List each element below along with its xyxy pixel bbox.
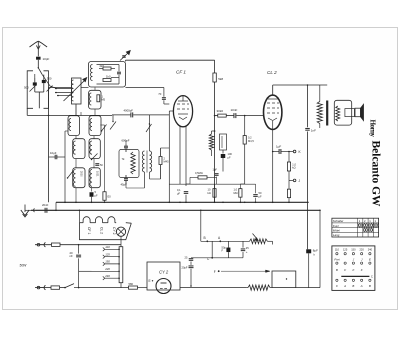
svg-text:220: 220	[359, 248, 364, 252]
capacitor 50pF stack	[95, 164, 103, 167]
tube CY2	[156, 279, 171, 294]
voltage table row B	[336, 268, 363, 272]
svg-text:580: 580	[129, 282, 134, 286]
wire C line	[207, 241, 243, 261]
resistor 1k0	[103, 75, 111, 82]
svg-text:4000pF: 4000pF	[124, 108, 134, 112]
wire CF1 cathodes	[180, 126, 186, 187]
svg-text:Kurz: Kurz	[333, 224, 339, 228]
tube CL2 electrodes	[267, 99, 279, 121]
svg-text:B: B	[336, 268, 338, 272]
svg-text:F: F	[353, 268, 355, 272]
svg-text:F: F	[361, 268, 363, 272]
bandfilter coil	[91, 65, 93, 81]
svg-text:μF: μF	[95, 193, 98, 197]
switch table hatch	[358, 219, 379, 232]
speaker secondary	[336, 106, 340, 121]
voltage table row Frei	[334, 258, 371, 262]
wire row line	[169, 183, 255, 185]
resistor mains zigzag	[246, 285, 320, 290]
wire mains1	[35, 244, 121, 246]
wire left rail	[48, 88, 50, 203]
coil 2000	[73, 168, 85, 188]
switch R1	[101, 125, 107, 132]
wire antenna to switch	[37, 60, 39, 68]
svg-text:100: 100	[228, 152, 233, 156]
svg-text:70: 70	[158, 92, 162, 96]
selector bar	[119, 247, 123, 283]
electrolytic 5uF	[90, 190, 98, 202]
wire plate line	[214, 115, 264, 117]
coil box R1R	[89, 116, 101, 136]
switch mid2	[146, 115, 152, 132]
resistor 0.5M	[186, 171, 217, 184]
svg-text:0,5MΩ: 0,5MΩ	[195, 171, 203, 175]
svg-text:125: 125	[343, 248, 348, 252]
wire node line	[201, 211, 250, 241]
capacitor 1uF out	[273, 145, 294, 155]
switch R2	[91, 154, 98, 161]
svg-text:M4,5: M4,5	[248, 139, 254, 143]
wire grid top line	[126, 60, 215, 61]
svg-text:30k0: 30k0	[217, 109, 224, 113]
svg-text:1k0: 1k0	[106, 75, 111, 79]
svg-text:μF: μF	[228, 155, 231, 159]
ground	[21, 205, 29, 218]
svg-text:A: A	[343, 284, 346, 288]
capacitor 20uF d	[182, 256, 213, 287]
svg-text:Frei: Frei	[334, 258, 340, 262]
svg-text:150: 150	[351, 248, 356, 252]
antenna coupling box	[27, 71, 48, 109]
svg-text:F: F	[344, 268, 346, 272]
svg-text:125: 125	[105, 253, 110, 257]
svg-text:10pF: 10pF	[43, 57, 50, 61]
capacitor 1uF row	[213, 168, 219, 185]
svg-text:110: 110	[105, 245, 110, 249]
resistor 580	[129, 282, 148, 289]
wire left column	[27, 108, 65, 115]
label CL2	[267, 70, 277, 75]
node A	[218, 236, 221, 242]
heater CF1	[83, 217, 91, 235]
svg-text:1,0: 1,0	[234, 188, 238, 192]
svg-text:μF: μF	[259, 194, 262, 198]
capacitor 20nF gnd	[42, 202, 56, 213]
wires coupling box	[35, 74, 44, 108]
capacitor 45pF	[121, 179, 129, 187]
node B	[204, 236, 209, 242]
svg-text:10μF: 10μF	[50, 151, 57, 155]
bandfilter box	[89, 62, 126, 88]
svg-text:F: F	[214, 270, 216, 274]
wire rail 65	[65, 131, 68, 202]
svg-text:600pF: 600pF	[122, 139, 130, 143]
svg-text:2000: 2000	[80, 171, 83, 177]
label CF1	[176, 70, 186, 75]
voltage table circles3	[336, 279, 371, 281]
switch mains	[64, 284, 78, 289]
svg-text:CY 2: CY 2	[159, 270, 169, 275]
wire screen rail	[214, 60, 216, 202]
transformer core	[326, 101, 328, 126]
svg-text:CF 1: CF 1	[87, 227, 91, 234]
pot zigzag	[250, 234, 273, 245]
svg-text:10nF: 10nF	[231, 108, 238, 112]
antenna	[30, 41, 48, 49]
resistor 2k0	[100, 64, 112, 70]
wire CL2 cathode	[272, 121, 274, 202]
voltage table circles2	[336, 262, 371, 264]
wire bus H	[31, 209, 320, 211]
electrolytic 8uF	[306, 248, 318, 287]
switch arrows coupling	[30, 85, 53, 92]
svg-text:Lang: Lang	[333, 233, 340, 237]
svg-text:1nF: 1nF	[311, 128, 316, 132]
terminal ground plug	[25, 209, 44, 213]
svg-text:kΩ: kΩ	[208, 191, 211, 195]
svg-text:1μF: 1μF	[276, 145, 281, 149]
switch antenna	[38, 67, 43, 74]
bus junction dots	[55, 202, 321, 212]
svg-text:A: A	[360, 284, 363, 288]
resistor 1.0M	[234, 184, 245, 202]
tuning coil	[71, 78, 81, 104]
switch tap wire	[42, 75, 56, 89]
svg-text:20nF: 20nF	[42, 203, 49, 207]
capacitor 50uF row	[245, 184, 262, 202]
svg-text:50W: 50W	[20, 264, 28, 268]
capacitor 4000pF	[124, 108, 134, 117]
capacitor 20nF mains	[70, 244, 82, 289]
resistor E0	[100, 125, 111, 202]
svg-text:B: B	[369, 284, 371, 288]
svg-text:E: E	[149, 279, 151, 283]
voltage table thick line	[341, 275, 373, 279]
resistor 5k8	[213, 73, 223, 82]
capacitor 25 c	[241, 241, 249, 257]
wire bus AVC	[49, 87, 164, 89]
capacitor 500	[24, 82, 37, 89]
wire right rail	[307, 84, 309, 249]
title Horny	[369, 120, 377, 138]
svg-text:M45: M45	[164, 159, 170, 163]
output transformer primary	[317, 85, 322, 128]
svg-text:150: 150	[105, 260, 110, 264]
speaker horn	[355, 104, 364, 120]
mains plug 2	[37, 285, 45, 289]
label CY2	[159, 270, 169, 275]
electrolytic 100uF	[221, 152, 233, 172]
padder box	[119, 150, 139, 178]
svg-text:500: 500	[24, 86, 29, 90]
resistor 10k	[208, 184, 217, 202]
wire coil taps	[55, 88, 72, 97]
capacitor bandfilter	[117, 65, 121, 85]
svg-text:MΩ: MΩ	[234, 191, 238, 195]
wire selector feed	[79, 270, 92, 272]
wire antenna stem	[37, 49, 39, 56]
variable cap arrow	[120, 51, 130, 61]
svg-text:0,1: 0,1	[177, 188, 181, 192]
wire CY2 out	[180, 287, 246, 289]
svg-text:300: 300	[47, 77, 52, 81]
voltage table header	[335, 248, 373, 252]
electrolytic 50uF c	[222, 241, 231, 257]
wire CF1 grid	[169, 111, 173, 202]
resistor 30k0	[217, 109, 227, 117]
selector taps	[92, 245, 120, 280]
svg-text:240: 240	[104, 274, 110, 278]
svg-text:B: B	[204, 236, 206, 240]
wires padder	[126, 140, 145, 188]
svg-text:Schalter: Schalter	[333, 219, 345, 223]
fuse mains2	[51, 286, 60, 289]
wire box2	[94, 88, 96, 116]
capacitor antenna	[36, 57, 49, 62]
svg-text:Mittel: Mittel	[333, 229, 340, 233]
tube CL2	[264, 95, 282, 129]
label 50W	[20, 264, 28, 268]
svg-text:CF 1: CF 1	[176, 70, 186, 75]
osc transformer	[142, 151, 151, 173]
junction box	[272, 271, 296, 288]
voltage table row CABAB	[336, 284, 371, 288]
svg-text:1001: 1001	[96, 171, 99, 177]
wire heater feed	[79, 210, 81, 222]
svg-text:kΩ: kΩ	[292, 166, 295, 170]
capacitor 600pF	[122, 139, 130, 148]
label E	[149, 279, 154, 283]
terminal K	[293, 150, 301, 154]
node F	[214, 258, 270, 274]
resistor 1.0k right	[287, 151, 296, 171]
svg-text:8μF: 8μF	[313, 248, 318, 252]
coil box R2R	[89, 139, 100, 159]
heater CL2	[96, 217, 104, 234]
wire bus G	[56, 201, 309, 203]
svg-text:1,0: 1,0	[292, 162, 296, 166]
svg-text:110: 110	[335, 248, 340, 252]
svg-text:CL 2: CL 2	[267, 70, 277, 75]
svg-text:CY 2: CY 2	[112, 227, 116, 235]
choke CF1 plate	[209, 130, 226, 156]
capacitor 0.1uF	[177, 188, 188, 202]
wire right col2	[319, 210, 321, 287]
svg-text:+: +	[246, 250, 248, 254]
svg-text:50μ: 50μ	[222, 245, 227, 249]
coil 1001	[89, 168, 100, 188]
wire osc grid line	[112, 114, 169, 116]
wire lamp to selector	[120, 236, 122, 246]
tuning arrow	[64, 78, 87, 102]
svg-text:E: E	[369, 258, 371, 262]
voltage table circles1	[336, 253, 371, 255]
wires bandfilter	[97, 65, 120, 85]
switch stack left	[67, 171, 73, 179]
speaker magnet	[345, 109, 355, 117]
fuse mains1	[52, 243, 61, 246]
svg-text:20μF: 20μF	[182, 266, 188, 270]
capacitor 10uF	[49, 151, 66, 159]
voltage table frame	[332, 246, 375, 291]
wire mains2	[35, 287, 129, 289]
svg-text:5k8: 5k8	[218, 77, 223, 81]
wire selector out	[120, 283, 122, 288]
mains plug 1	[37, 243, 45, 247]
capacitor 1nF	[305, 128, 316, 132]
padder zigzag	[122, 152, 136, 174]
terminal J	[289, 171, 301, 183]
heater CY2	[108, 217, 116, 235]
CY2 box	[147, 262, 180, 290]
svg-text:M5: M5	[102, 97, 106, 101]
svg-text:Horny: Horny	[369, 120, 377, 138]
heater box	[80, 223, 132, 240]
coil box 2	[89, 90, 101, 109]
title Belcanto GW	[370, 141, 384, 207]
capacitor 10nF	[231, 108, 238, 118]
resistor 1M5	[97, 95, 106, 102]
resistor 1k right2	[287, 180, 290, 202]
svg-text:C: C	[371, 275, 373, 279]
resistor 2M45	[150, 148, 170, 179]
wire CL2 plate	[273, 85, 328, 95]
resistor 0.2M CL2	[243, 116, 254, 184]
svg-text:1μF: 1μF	[213, 168, 218, 172]
tube CF1	[173, 96, 192, 127]
svg-text:μF: μF	[177, 191, 180, 195]
capacitor 70 grid	[158, 88, 169, 112]
switch mid1	[110, 115, 116, 130]
switch table frame	[332, 218, 379, 237]
svg-text:nF: nF	[70, 254, 74, 258]
dial lamp	[116, 227, 125, 236]
svg-text:240: 240	[368, 248, 373, 252]
coil box R1L	[68, 116, 80, 136]
svg-text:E0: E0	[108, 195, 112, 199]
wire stack verticals	[76, 112, 94, 202]
wire coil bottom	[65, 104, 112, 115]
tube CF1 electrodes	[177, 96, 189, 120]
capacitor 300	[42, 77, 52, 84]
svg-text:CL 2: CL 2	[100, 227, 104, 234]
node rail	[48, 115, 50, 117]
svg-text:220: 220	[104, 267, 110, 271]
coil box R2L	[73, 139, 85, 159]
wires osc transformer	[145, 124, 150, 188]
switch table labels	[333, 219, 345, 237]
svg-text:B: B	[352, 284, 354, 288]
speaker box	[334, 100, 351, 125]
svg-text:Belcanto GW: Belcanto GW	[370, 141, 384, 207]
